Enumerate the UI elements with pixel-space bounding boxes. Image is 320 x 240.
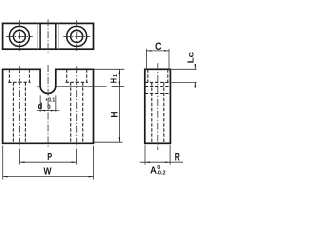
- svg-text:W: W: [44, 165, 52, 177]
- svg-text:P: P: [47, 152, 52, 163]
- svg-text:C: C: [155, 41, 161, 53]
- svg-text:H: H: [108, 111, 119, 117]
- svg-text:+0.1: +0.1: [45, 98, 55, 104]
- svg-text:R: R: [175, 151, 180, 163]
- svg-text:d: d: [38, 101, 43, 112]
- svg-text:0: 0: [47, 104, 51, 111]
- svg-text:-0.2: -0.2: [156, 170, 165, 176]
- svg-text:H: H: [109, 78, 119, 83]
- svg-text:1: 1: [113, 74, 119, 77]
- svg-text:Lc: Lc: [186, 51, 195, 63]
